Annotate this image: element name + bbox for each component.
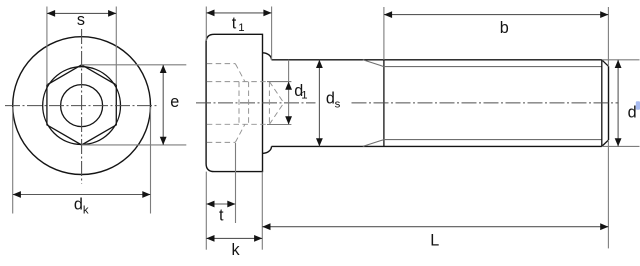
dim b extension right — [607, 7, 609, 66]
hidden socket bottom chamfer — [235, 124, 245, 142]
socket corner circle (e) — [43, 67, 121, 145]
dim t arrows — [206, 201, 214, 208]
dim s arrows — [47, 10, 55, 17]
dim d line — [617, 60, 619, 147]
dim e extension bottom — [82, 144, 187, 146]
hidden socket top flat line — [207, 81, 270, 83]
dim k extension right — [261, 172, 263, 250]
shank top line — [272, 59, 602, 61]
hidden drill cone top — [269, 82, 283, 103]
dim d1 arrows — [285, 82, 292, 90]
chamfer bottom diagonal — [602, 140, 609, 146]
dim t line — [206, 203, 235, 205]
screw head side outline — [206, 34, 262, 171]
full thread start line — [383, 60, 385, 147]
hidden socket bottom corner line — [207, 141, 236, 143]
dim dk extension left — [12, 107, 14, 214]
dim k line — [206, 237, 262, 239]
thread runout bottom — [363, 140, 384, 147]
svg-text:s: s — [77, 11, 85, 29]
front view vertical centerline — [81, 29, 83, 184]
end face line — [608, 66, 610, 140]
hidden socket top corner line — [207, 63, 236, 65]
thread runout top — [363, 60, 384, 67]
dim t extension right — [235, 143, 237, 223]
hidden socket top chamfer — [235, 64, 245, 82]
dim dk line — [13, 194, 151, 196]
hidden socket bottom flat line — [207, 123, 270, 125]
dim t1 extension right — [271, 7, 273, 60]
svg-text:s: s — [335, 98, 341, 110]
svg-text:k: k — [83, 204, 89, 216]
dim d extension top — [602, 59, 640, 61]
dim e extension top — [82, 64, 187, 66]
side view centerline — [196, 102, 316, 104]
dim d1 line — [288, 60, 290, 125]
svg-text:d: d — [628, 104, 637, 122]
hidden drill end plane — [268, 82, 270, 125]
dim e line — [162, 65, 164, 145]
dim t1 extension left — [205, 7, 207, 42]
dim t1 line — [206, 12, 271, 14]
dim s line — [47, 12, 116, 14]
head outer circle (dk) — [13, 37, 151, 175]
socket cone circle (d1) — [61, 85, 103, 127]
svg-text:k: k — [231, 241, 240, 259]
hidden socket bottom plane 1 — [238, 82, 240, 125]
dim b extension left — [383, 7, 385, 60]
svg-text:e: e — [170, 93, 179, 111]
chamfer top diagonal — [602, 60, 609, 67]
dim L line — [262, 226, 608, 228]
dim s extension right — [115, 7, 117, 85]
chamfer edge line — [601, 60, 603, 147]
dim dk arrows — [13, 191, 21, 198]
svg-text:t: t — [232, 14, 237, 32]
dim ds arrows — [316, 60, 323, 68]
svg-text:t: t — [219, 207, 224, 225]
under-head fillet top — [263, 53, 272, 60]
dim L extension right — [607, 140, 609, 248]
dim t left extension shared — [205, 172, 207, 250]
svg-text:b: b — [500, 19, 509, 37]
shank bottom line — [272, 145, 602, 147]
blue cursor artifact — [636, 101, 640, 110]
hidden socket bottom plane 2 — [248, 82, 250, 125]
dim L arrows — [262, 223, 270, 230]
dim e arrows — [160, 65, 167, 73]
svg-text:d: d — [326, 90, 335, 108]
dim d1 extension bottom — [267, 124, 291, 126]
hidden drill cone bottom — [269, 103, 283, 124]
svg-text:1: 1 — [301, 89, 307, 101]
dim dk extension right — [150, 107, 152, 214]
thread minor bottom line — [384, 139, 602, 141]
thread minor top line — [384, 66, 602, 68]
svg-text:d: d — [74, 195, 83, 213]
dim k arrows — [206, 235, 214, 242]
dim d arrows — [615, 60, 622, 68]
dim d extension bottom — [602, 145, 640, 147]
dim t1 arrows — [206, 10, 214, 17]
front view horizontal centerline — [5, 105, 158, 107]
under-head fillet bottom — [263, 146, 272, 153]
dim d1 extension top — [267, 81, 291, 83]
svg-text:1: 1 — [238, 22, 244, 34]
hex socket — [47, 65, 116, 145]
dim s extension left — [46, 7, 48, 85]
dim ds line — [318, 60, 320, 147]
dim b line — [384, 14, 609, 16]
dim b arrows — [384, 11, 392, 18]
svg-text:L: L — [430, 232, 439, 250]
